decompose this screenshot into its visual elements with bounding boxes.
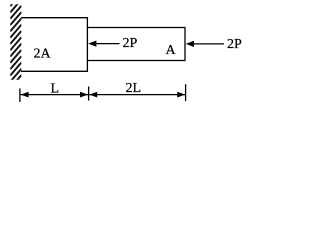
svg-text:2P: 2P <box>123 36 138 51</box>
dimension tick right <box>185 84 187 101</box>
dimension tick middle <box>88 87 90 101</box>
svg-text:2P: 2P <box>227 37 242 52</box>
label 2P (at step) <box>123 36 138 51</box>
svg-text:2L: 2L <box>126 81 142 96</box>
label 2P (at free end) <box>227 37 242 52</box>
label 2A <box>34 47 52 62</box>
svg-text:L: L <box>51 82 60 97</box>
label 2L <box>126 81 142 96</box>
bar segment 2A (large rectangle, open at wall side) <box>21 18 87 72</box>
dimension line L with arrowheads <box>21 92 88 98</box>
label A <box>166 43 177 58</box>
label L <box>51 82 60 97</box>
svg-text:2A: 2A <box>34 47 52 62</box>
dimension tick left <box>19 88 21 102</box>
fixed wall support (hatched) <box>10 0 21 88</box>
svg-text:A: A <box>166 43 177 58</box>
dimension line 2L with arrowheads <box>89 92 185 98</box>
bar segment A (small rectangle) <box>87 28 185 61</box>
force arrow 2P at step (pointing left into junction) <box>88 41 119 47</box>
force arrow 2P at free end (pointing left into bar end) <box>186 41 224 47</box>
